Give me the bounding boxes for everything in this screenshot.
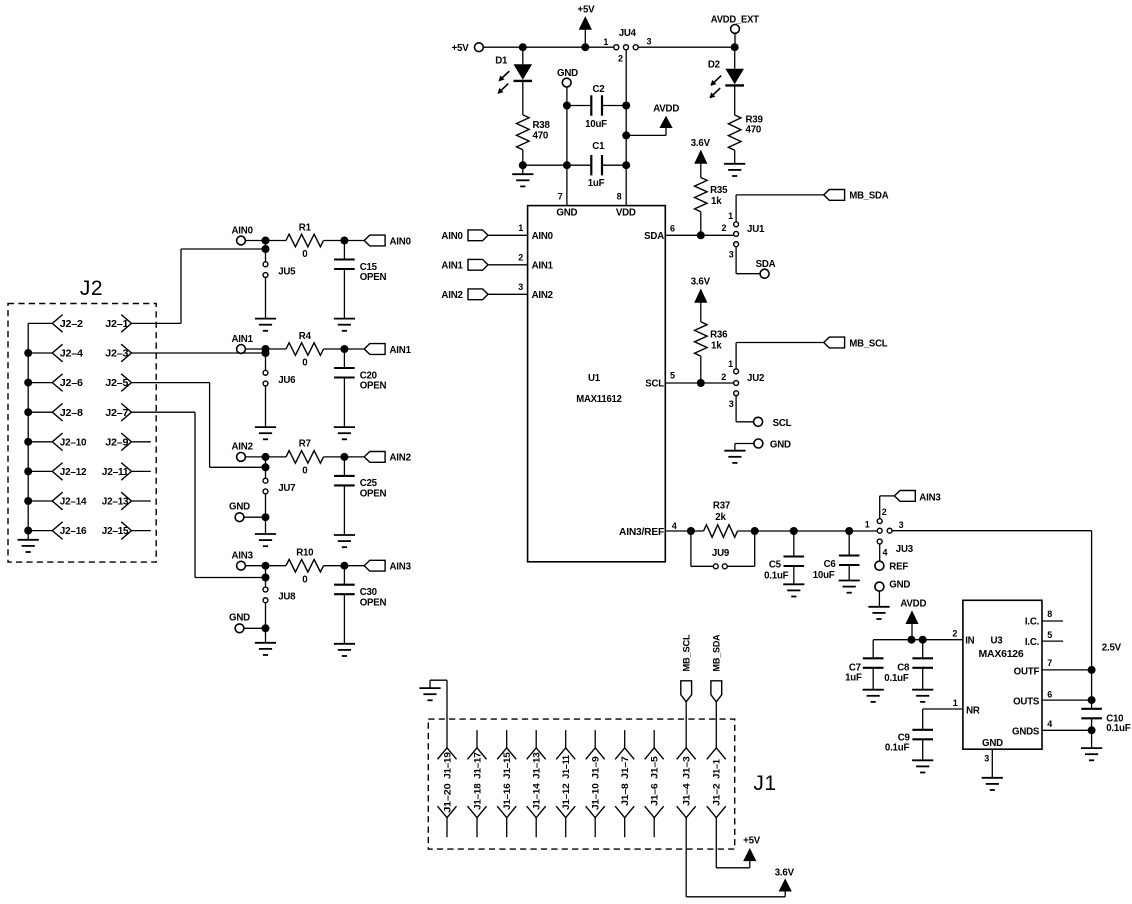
- svg-text:OPEN: OPEN: [360, 597, 387, 608]
- svg-text:J1–18: J1–18: [472, 784, 483, 810]
- svg-text:OUTS: OUTS: [1013, 696, 1040, 707]
- svg-text:1uF: 1uF: [588, 178, 605, 189]
- svg-text:1: 1: [603, 37, 608, 47]
- svg-text:R7: R7: [299, 439, 311, 450]
- svg-text:AIN3/REF: AIN3/REF: [619, 527, 664, 538]
- svg-text:8: 8: [617, 191, 622, 201]
- svg-text:3: 3: [729, 399, 734, 409]
- svg-text:6: 6: [1047, 690, 1052, 700]
- svg-text:I.C.: I.C.: [1025, 637, 1040, 648]
- svg-text:0: 0: [302, 249, 307, 260]
- svg-text:3: 3: [518, 282, 523, 292]
- svg-text:U1: U1: [588, 373, 601, 384]
- svg-text:MAX6126: MAX6126: [979, 649, 1025, 660]
- svg-text:J1–12: J1–12: [561, 784, 572, 810]
- svg-text:0.1uF: 0.1uF: [884, 673, 909, 684]
- svg-text:3: 3: [729, 250, 734, 260]
- svg-text:AIN3: AIN3: [390, 562, 412, 573]
- svg-text:OUTF: OUTF: [1014, 666, 1040, 677]
- svg-text:GNDS: GNDS: [1012, 727, 1040, 738]
- svg-text:J2–10: J2–10: [60, 437, 87, 448]
- svg-text:J1–14: J1–14: [532, 783, 543, 810]
- svg-text:AIN2: AIN2: [390, 453, 411, 464]
- svg-text:+5V: +5V: [452, 43, 470, 54]
- svg-text:GND: GND: [982, 738, 1003, 749]
- svg-text:J1–6: J1–6: [650, 784, 661, 806]
- svg-text:1k: 1k: [711, 196, 722, 207]
- svg-text:JU9: JU9: [712, 548, 730, 559]
- svg-text:J2–2: J2–2: [60, 319, 83, 330]
- svg-text:470: 470: [533, 130, 549, 141]
- svg-text:SCL: SCL: [645, 378, 664, 389]
- svg-text:2: 2: [518, 253, 523, 263]
- svg-text:J1–16: J1–16: [502, 784, 513, 810]
- svg-text:J1: J1: [753, 772, 776, 795]
- svg-text:D1: D1: [495, 56, 508, 67]
- svg-text:JU6: JU6: [278, 375, 296, 386]
- svg-text:SCL: SCL: [773, 418, 792, 429]
- svg-text:J1–13: J1–13: [532, 752, 543, 778]
- svg-text:J2–14: J2–14: [60, 497, 87, 508]
- svg-text:0.1uF: 0.1uF: [885, 743, 910, 754]
- svg-text:AIN1: AIN1: [441, 261, 463, 272]
- svg-text:10uF: 10uF: [585, 119, 607, 130]
- svg-text:J2–8: J2–8: [60, 408, 84, 419]
- svg-text:J2: J2: [80, 277, 103, 300]
- svg-text:SDA: SDA: [756, 259, 776, 270]
- svg-text:5: 5: [670, 370, 675, 380]
- svg-text:2.5V: 2.5V: [1102, 642, 1122, 653]
- svg-text:R10: R10: [296, 548, 313, 559]
- svg-text:GND: GND: [556, 208, 577, 219]
- svg-text:OPEN: OPEN: [360, 381, 387, 392]
- svg-text:AIN2: AIN2: [532, 290, 553, 301]
- svg-text:3: 3: [984, 754, 989, 764]
- svg-text:0: 0: [302, 358, 307, 369]
- svg-text:1: 1: [865, 520, 870, 530]
- svg-text:R35: R35: [710, 185, 728, 196]
- svg-text:AIN3: AIN3: [919, 493, 941, 504]
- svg-text:GND: GND: [889, 580, 910, 591]
- svg-text:+5V: +5V: [578, 5, 596, 16]
- svg-text:8: 8: [1047, 609, 1052, 619]
- svg-text:J1–1: J1–1: [712, 758, 723, 778]
- svg-text:J1–5: J1–5: [650, 755, 661, 778]
- svg-text:4: 4: [672, 521, 677, 531]
- svg-text:J2–12: J2–12: [60, 467, 87, 478]
- svg-text:GND: GND: [229, 613, 250, 624]
- svg-text:AIN1: AIN1: [390, 345, 412, 356]
- svg-text:VDD: VDD: [616, 208, 636, 219]
- svg-text:J2–4: J2–4: [60, 349, 84, 360]
- svg-text:R37: R37: [713, 501, 730, 512]
- svg-text:J1–11: J1–11: [561, 754, 572, 778]
- svg-text:AIN2: AIN2: [232, 442, 253, 453]
- svg-text:2: 2: [721, 372, 726, 382]
- svg-text:J1–19: J1–19: [442, 752, 453, 778]
- svg-text:J2–16: J2–16: [60, 526, 87, 537]
- svg-text:C8: C8: [897, 663, 910, 674]
- svg-text:AIN0: AIN0: [532, 231, 553, 242]
- svg-text:D2: D2: [708, 60, 720, 71]
- svg-text:J1–2: J1–2: [712, 784, 723, 806]
- svg-text:AIN2: AIN2: [441, 290, 462, 301]
- svg-text:AVDD: AVDD: [900, 599, 926, 610]
- svg-text:C2: C2: [593, 84, 605, 95]
- svg-text:1: 1: [728, 211, 733, 221]
- svg-text:NR: NR: [966, 706, 980, 717]
- svg-text:JU3: JU3: [896, 544, 914, 555]
- svg-text:GND: GND: [229, 502, 250, 513]
- svg-text:C6: C6: [824, 559, 837, 570]
- svg-text:R38: R38: [533, 120, 551, 131]
- svg-text:AVDD: AVDD: [653, 103, 679, 114]
- svg-text:4: 4: [1047, 719, 1052, 729]
- svg-text:3.6V: 3.6V: [691, 138, 711, 149]
- svg-text:3: 3: [647, 37, 652, 47]
- svg-text:1k: 1k: [711, 340, 722, 351]
- svg-text:AIN1: AIN1: [532, 261, 554, 272]
- svg-text:U3: U3: [991, 636, 1004, 647]
- svg-text:4: 4: [883, 547, 888, 557]
- svg-text:1: 1: [953, 698, 958, 708]
- svg-text:JU1: JU1: [747, 224, 765, 235]
- svg-text:J2–6: J2–6: [60, 378, 84, 389]
- svg-text:0: 0: [302, 466, 307, 477]
- svg-text:C5: C5: [769, 559, 782, 570]
- svg-text:10uF: 10uF: [813, 570, 835, 581]
- svg-text:SDA: SDA: [644, 231, 664, 242]
- svg-text:7: 7: [558, 191, 563, 201]
- svg-text:I.C.: I.C.: [1025, 617, 1040, 628]
- svg-text:AIN0: AIN0: [441, 231, 462, 242]
- svg-text:7: 7: [1047, 658, 1052, 668]
- svg-text:J1–3: J1–3: [682, 756, 693, 778]
- svg-text:J1–17: J1–17: [472, 752, 483, 778]
- svg-text:JU5: JU5: [278, 267, 296, 278]
- svg-text:AIN1: AIN1: [232, 334, 254, 345]
- svg-text:J1–7: J1–7: [620, 756, 631, 778]
- svg-text:JU7: JU7: [278, 483, 295, 494]
- svg-text:6: 6: [670, 224, 675, 234]
- svg-text:C1: C1: [592, 141, 605, 152]
- svg-text:3: 3: [899, 520, 904, 530]
- svg-text:2k: 2k: [715, 512, 726, 523]
- svg-text:J1–4: J1–4: [682, 783, 693, 806]
- svg-text:1uF: 1uF: [845, 673, 862, 684]
- svg-text:OPEN: OPEN: [360, 489, 387, 500]
- svg-text:R1: R1: [299, 222, 312, 233]
- svg-text:MAX11612: MAX11612: [576, 394, 622, 405]
- svg-text:JU2: JU2: [747, 373, 764, 384]
- svg-text:IN: IN: [965, 636, 974, 647]
- svg-text:MB_SCL: MB_SCL: [849, 338, 887, 349]
- svg-text:GND: GND: [770, 439, 791, 450]
- svg-text:0.1uF: 0.1uF: [764, 570, 789, 581]
- svg-text:AIN0: AIN0: [232, 225, 253, 236]
- svg-text:J1–20: J1–20: [442, 784, 453, 813]
- svg-text:3.6V: 3.6V: [691, 277, 711, 288]
- svg-text:MB_SDA: MB_SDA: [712, 634, 723, 671]
- svg-text:AVDD_EXT: AVDD_EXT: [711, 15, 759, 26]
- svg-text:OPEN: OPEN: [360, 272, 387, 283]
- svg-text:J1–15: J1–15: [502, 751, 513, 778]
- svg-text:AIN0: AIN0: [390, 236, 411, 247]
- svg-text:AIN3: AIN3: [232, 551, 254, 562]
- svg-text:R36: R36: [710, 330, 728, 341]
- svg-text:J1–10: J1–10: [591, 784, 602, 810]
- svg-text:0: 0: [302, 574, 307, 585]
- svg-text:J1–9: J1–9: [591, 756, 602, 778]
- svg-text:2: 2: [882, 507, 887, 517]
- svg-text:REF: REF: [889, 562, 908, 573]
- svg-text:MB_SDA: MB_SDA: [849, 191, 888, 202]
- svg-text:2: 2: [952, 629, 957, 639]
- svg-text:3.6V: 3.6V: [775, 867, 795, 878]
- svg-text:5: 5: [1047, 630, 1052, 640]
- svg-text:JU8: JU8: [278, 592, 296, 603]
- svg-text:1: 1: [518, 223, 523, 233]
- svg-text:1: 1: [728, 359, 733, 369]
- svg-text:+5V: +5V: [743, 836, 761, 847]
- svg-text:MB_SCL: MB_SCL: [682, 634, 693, 671]
- svg-text:R4: R4: [299, 331, 312, 342]
- svg-text:JU4: JU4: [619, 28, 637, 39]
- svg-text:0.1uF: 0.1uF: [1106, 723, 1131, 734]
- svg-text:2: 2: [721, 223, 726, 233]
- svg-text:470: 470: [746, 125, 762, 136]
- svg-text:2: 2: [618, 54, 623, 64]
- svg-text:J1–8: J1–8: [620, 784, 631, 806]
